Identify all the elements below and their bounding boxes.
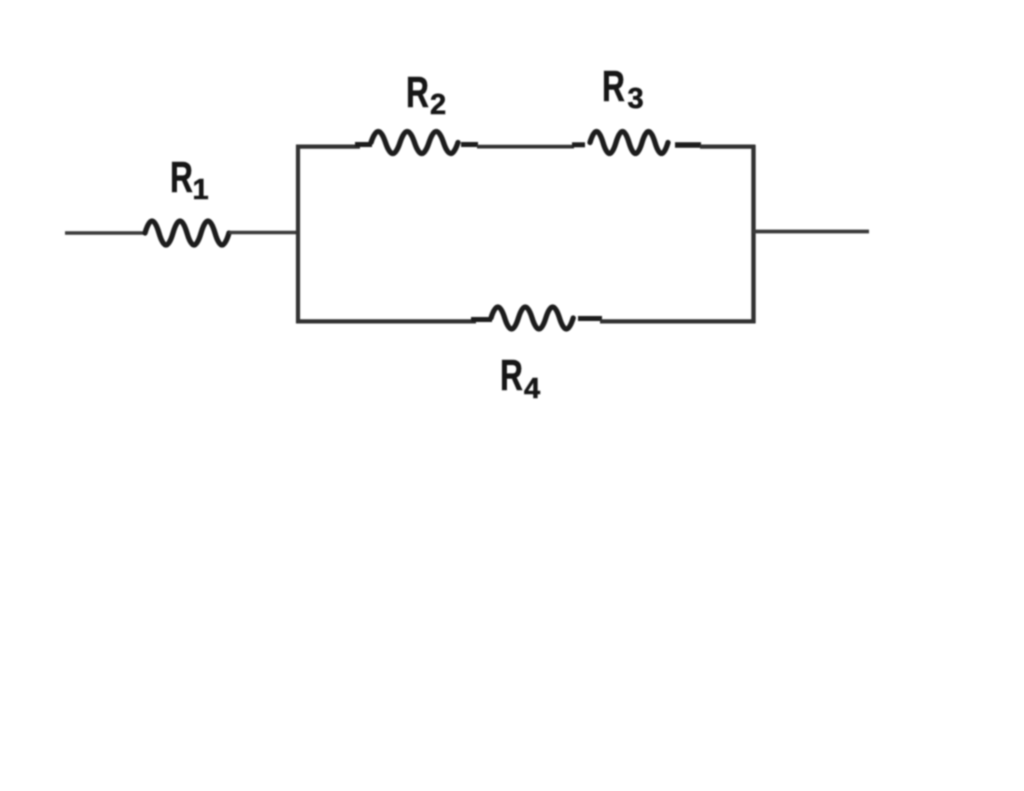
resistor R2 lead dash left — [355, 142, 372, 147]
svg-text:2: 2 — [430, 89, 446, 121]
label R4 — [500, 351, 540, 405]
resistor R4 lead dash left — [471, 317, 492, 322]
label R3 — [602, 62, 644, 115]
resistor R3 lead dash left — [572, 142, 585, 147]
svg-text:1: 1 — [193, 174, 209, 206]
svg-text:R: R — [406, 68, 429, 117]
label R2 — [406, 68, 446, 121]
svg-text:R: R — [602, 62, 625, 111]
node A: left junction vertical wire — [296, 145, 300, 323]
wire: top branch segment 1 — [296, 145, 360, 149]
wire: output lead right — [753, 230, 869, 234]
wire: top branch segment 3 — [700, 145, 755, 149]
resistor R2 — [371, 132, 458, 154]
resistor R3 lead dash right — [675, 142, 701, 148]
wire: top branch segment 2 — [477, 145, 574, 149]
resistor R3 — [590, 132, 668, 154]
svg-text:4: 4 — [524, 373, 540, 405]
wire: bottom branch segment 1 — [296, 319, 476, 323]
svg-text:3: 3 — [628, 83, 644, 115]
resistor R4 — [491, 307, 573, 329]
resistor R1 — [145, 221, 229, 245]
resistor R2 lead dash right — [461, 142, 478, 147]
wire: bottom branch segment 2 — [600, 319, 756, 323]
wire: R1 to node A — [229, 231, 300, 235]
resistor R4 lead dash right — [578, 316, 602, 321]
label R1 — [170, 153, 209, 206]
svg-text:R: R — [500, 351, 523, 400]
wire: right junction vertical — [751, 145, 755, 323]
svg-text:R: R — [170, 153, 193, 202]
wire: input lead left — [65, 231, 147, 235]
